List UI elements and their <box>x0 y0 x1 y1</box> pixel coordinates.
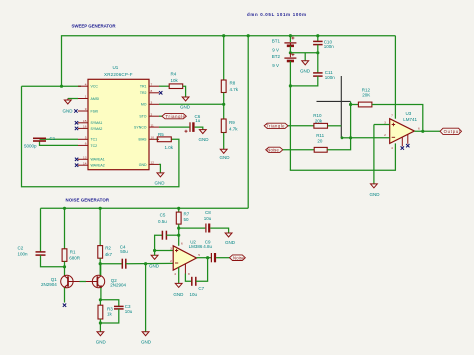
wire: U2 gain pin to C7 <box>185 264 191 281</box>
wire: SYNCO to C6 <box>159 126 189 128</box>
sheet note: simulation directive text <box>247 12 306 17</box>
no-connect X on U3 pin 5 <box>406 144 409 147</box>
ground at U2 pin 4 <box>173 283 184 296</box>
svg-text:R10: R10 <box>313 113 322 118</box>
wire: Noise label to R11 <box>283 149 314 151</box>
ground at C8 <box>225 233 236 245</box>
svg-text:R1: R1 <box>70 249 76 254</box>
wire: U2 pin 4 to ground <box>178 267 180 283</box>
svg-text:VCC: VCC <box>91 85 99 89</box>
svg-text:TC1: TC1 <box>91 138 98 142</box>
node: junction rail at R2 <box>99 207 102 210</box>
svg-text:GND: GND <box>96 339 107 344</box>
svg-text:6: 6 <box>418 126 420 130</box>
svg-text:4.7k: 4.7k <box>229 127 238 132</box>
node: junction summing at inverting input <box>349 136 352 139</box>
resistor R10 20k <box>313 113 327 128</box>
svg-text:9 V: 9 V <box>272 63 279 68</box>
svg-text:7: 7 <box>391 113 393 117</box>
wire: U2 output to C9 <box>197 257 211 259</box>
resistor R8 4.7k <box>221 80 238 93</box>
node: junction R3 C3 bottom <box>99 321 102 324</box>
wire: C5 right to R7 column <box>166 234 178 236</box>
wire: top VCC rail <box>62 36 396 86</box>
wire: noise generator top rail <box>41 207 249 209</box>
no-connect X on U1 TR2 <box>159 91 162 94</box>
svg-text:14: 14 <box>83 161 87 165</box>
svg-text:WAVEA1: WAVEA1 <box>91 158 105 162</box>
svg-text:13: 13 <box>83 156 87 160</box>
U1 right pin stubs <box>149 86 159 164</box>
svg-text:1u: 1u <box>195 118 201 123</box>
svg-text:50: 50 <box>184 217 190 222</box>
global label Triangle at R10 <box>264 123 288 128</box>
wire: R8 to R9 <box>223 93 225 120</box>
svg-text:2: 2 <box>170 259 172 263</box>
svg-text:SYNCO: SYNCO <box>134 126 147 130</box>
svg-text:10k: 10k <box>171 78 179 83</box>
node: junction R7 C8 <box>177 227 180 230</box>
svg-text:20k: 20k <box>315 119 323 124</box>
wire: TC2 to C1 bottom <box>40 141 79 145</box>
svg-text:FSKI: FSKI <box>91 109 99 113</box>
wire: R7 top stub <box>178 208 180 212</box>
ground at R9 <box>220 149 231 160</box>
capacitor C10 100n <box>313 40 334 50</box>
ground at R4 <box>180 97 191 110</box>
IC U1 XR2206CP-F <box>88 65 149 170</box>
svg-text:GND: GND <box>220 155 231 160</box>
svg-text:R7: R7 <box>184 212 190 217</box>
wire: C6 to ground <box>195 127 203 130</box>
svg-text:GND: GND <box>139 163 147 167</box>
svg-text:10u: 10u <box>190 292 198 297</box>
wire: rail to BT1 <box>289 36 291 42</box>
capacitor C9 4.8u polarized <box>203 239 215 262</box>
capacitor C6 1u polarized <box>185 114 201 133</box>
wire: R12 left stub <box>351 104 359 106</box>
wire: R2 top stub <box>99 208 101 245</box>
wire: TC1 to C1 top <box>40 138 79 140</box>
wire: U3 output <box>414 130 440 132</box>
ground at U2 pin 3 <box>149 251 160 269</box>
node: junction rail at R1 <box>63 207 66 210</box>
svg-text:AMSI: AMSI <box>91 97 100 101</box>
svg-text:8: 8 <box>151 89 153 93</box>
wire: R9 to ground <box>223 133 225 150</box>
transistor Q1 2N2904 <box>41 275 80 288</box>
svg-text:BIAS: BIAS <box>139 138 148 142</box>
sheet note: NOISE GENERATOR title <box>66 198 110 203</box>
wire: R12 right to output node <box>372 105 423 132</box>
wire: C9 to Noise output label <box>216 257 229 259</box>
svg-text:3: 3 <box>384 120 386 124</box>
svg-text:STO: STO <box>139 115 146 119</box>
wire: U3 pin 3 input <box>374 124 390 126</box>
svg-text:4.8u: 4.8u <box>203 244 212 249</box>
wire: C5 left column to pin 3 node <box>155 235 162 250</box>
node: junction mid row C10 <box>316 51 319 54</box>
svg-text:100n: 100n <box>324 44 335 49</box>
svg-text:6: 6 <box>181 241 183 245</box>
svg-text:GND: GND <box>173 292 184 297</box>
wire: U3 pin 4 down to V- row <box>290 143 396 170</box>
svg-text:100n: 100n <box>325 75 336 80</box>
svg-text:1.0k: 1.0k <box>165 145 174 150</box>
svg-text:R2: R2 <box>105 246 111 251</box>
svg-text:Triangle: Triangle <box>166 114 186 119</box>
svg-text:SYMA2: SYMA2 <box>91 127 103 131</box>
wire: C10 top stub <box>317 36 319 41</box>
svg-text:11: 11 <box>151 123 154 127</box>
svg-text:R5: R5 <box>158 132 164 137</box>
no-connect X on U1 SYMA2 <box>75 127 78 130</box>
wire: mid row down to C11 <box>317 53 319 73</box>
svg-text:C2: C2 <box>18 246 24 251</box>
node: junction C2 R1 Q1 <box>63 265 66 268</box>
svg-text:4: 4 <box>391 146 393 150</box>
svg-text:10u: 10u <box>204 216 212 221</box>
capacitor C3 10u <box>114 304 133 314</box>
no-connect X on U3 pin 1 <box>401 146 404 149</box>
svg-text:9: 9 <box>85 107 87 111</box>
svg-text:20: 20 <box>317 139 323 144</box>
global label Output <box>440 128 462 134</box>
svg-text:4k7: 4k7 <box>105 252 113 257</box>
svg-text:5000p: 5000p <box>24 144 37 149</box>
U1 left pin stubs <box>78 86 88 165</box>
node: junction U2 output C7 <box>206 256 209 259</box>
svg-text:2: 2 <box>384 133 386 137</box>
svg-text:XR2206CP-F: XR2206CP-F <box>104 72 133 77</box>
wire: BIAS pin to R5 <box>156 138 157 140</box>
wire: R4 to ground <box>183 86 186 97</box>
svg-text:MO: MO <box>141 103 147 107</box>
svg-text:4: 4 <box>85 82 87 86</box>
global label Noise output <box>230 255 246 261</box>
node: junction pin 3 ground <box>153 249 156 252</box>
svg-text:GND: GND <box>155 180 166 185</box>
resistor R4 10k <box>169 71 183 88</box>
capacitor C4 50u <box>120 244 129 268</box>
graphic line: black vertical near R12 <box>340 76 342 138</box>
ground at C4 column <box>141 332 152 345</box>
wire: R1 top stub <box>64 208 66 249</box>
node: junction Q2 emitter R3 C3 <box>99 298 102 301</box>
wire: VCC row to U1 pin 4 <box>22 85 82 87</box>
resistor R1 680R <box>62 249 81 262</box>
wire: Q1 base to Q2 base <box>80 281 87 283</box>
svg-text:dmn 0.05L 101m 100m: dmn 0.05L 101m 100m <box>247 12 306 17</box>
wire: R2 bottom to Q2 collector node <box>99 258 101 275</box>
wire: STO pin to Triangle label <box>159 115 162 117</box>
node: junction black line bottom <box>341 136 344 139</box>
wire: R1 bottom to Q1 collector <box>64 261 66 275</box>
svg-text:GND: GND <box>141 339 152 344</box>
wire: U1 GND pin to ground <box>159 164 160 173</box>
battery BT2 9V <box>272 53 297 68</box>
svg-text:R11: R11 <box>316 133 324 138</box>
resistor R7 50 <box>176 212 189 225</box>
wire: U3 pin 2 input <box>351 137 390 139</box>
ground at battery midpoint <box>300 61 311 74</box>
svg-text:GND: GND <box>63 109 74 114</box>
node: junction VCC rail drop <box>60 85 63 88</box>
ground at U1 AMSI <box>64 99 71 105</box>
wire: black line bottom to summing vertical <box>341 137 350 139</box>
ground at U3 pin 3 <box>370 184 381 197</box>
svg-text:C1: C1 <box>50 136 56 141</box>
svg-text:20K: 20K <box>362 93 370 98</box>
node: junction rail at R8 <box>222 34 225 37</box>
svg-text:BT1: BT1 <box>272 38 281 43</box>
svg-text:GND: GND <box>180 105 191 110</box>
svg-text:5: 5 <box>85 136 87 140</box>
wire: Triangle label to R10 <box>288 125 314 127</box>
svg-text:LM741: LM741 <box>403 117 417 122</box>
wire: rail left drop to C2 <box>40 208 42 251</box>
svg-text:3: 3 <box>151 101 153 105</box>
wire: mid vertical from top rail to noise rail <box>247 36 249 209</box>
no-connect X on U1 FSKI with GND label <box>63 109 78 114</box>
svg-text:SWEEP GENERATOR: SWEEP GENERATOR <box>72 24 117 29</box>
wire: C4 to U2 inverting input <box>126 262 173 264</box>
capacitor C2 100n <box>18 246 46 257</box>
capacitor C8 10u polarized <box>204 210 212 233</box>
node: junction summing at R12 stub <box>349 103 352 106</box>
svg-text:2: 2 <box>151 112 153 116</box>
node: junction rail at BT1 <box>289 34 292 37</box>
resistor R11 20 <box>314 133 327 152</box>
svg-text:GND: GND <box>199 137 210 142</box>
svg-text:R8: R8 <box>230 81 236 86</box>
capacitor C11 100n <box>313 70 335 80</box>
resistor R9 4.7k <box>221 119 238 133</box>
wire: MO pin to R8 R9 divider <box>159 103 224 105</box>
svg-text:1k: 1k <box>107 311 113 316</box>
node: junction MO divider <box>222 103 225 106</box>
ground at U1 GND pin <box>155 173 166 185</box>
svg-text:U3: U3 <box>406 111 412 116</box>
wire: TR1 to R4 <box>159 85 169 87</box>
node: junction rail at C10 <box>316 34 319 37</box>
wire: mid row ground stub <box>304 53 306 61</box>
wire: U2 pin 3 row <box>155 250 174 252</box>
wire: battery minus column down to op-amp V- row <box>289 61 291 170</box>
wire: AMSI pin to ground stub <box>68 98 78 100</box>
resistor R3 1k <box>98 305 113 319</box>
ground at R3 <box>96 332 107 345</box>
op-amp U2 LM386 <box>170 239 203 276</box>
svg-text:Output: Output <box>444 129 461 134</box>
wire: R8 top to rail <box>223 36 225 80</box>
no-connect X at Q1 emitter <box>63 304 66 307</box>
svg-text:10u: 10u <box>125 309 133 314</box>
node: junction C4 output to ground column <box>144 262 147 265</box>
svg-text:WAVEA2: WAVEA2 <box>91 164 105 168</box>
svg-text:R12: R12 <box>362 87 371 92</box>
node: junction output feedback <box>421 130 424 133</box>
node: junction battery column bottom <box>289 84 292 87</box>
svg-text:5: 5 <box>198 253 200 257</box>
wire: emitter node to R3 <box>99 300 101 305</box>
svg-text:Noise: Noise <box>267 148 279 153</box>
wire: C11 bottom row to battery column <box>290 76 317 86</box>
svg-text:2N2904: 2N2904 <box>110 282 126 287</box>
svg-text:Noise: Noise <box>233 256 245 261</box>
ground at C6 <box>199 130 210 142</box>
graphic line: black horizontal above R10 <box>317 100 351 102</box>
svg-text:0.5u: 0.5u <box>158 219 167 224</box>
no-connect X on U1 SYMA1 <box>75 121 78 124</box>
wire: R7 bottom to U2 V+ <box>178 224 180 246</box>
transistor Q2 2N2904 <box>86 275 126 288</box>
wire: C3 top branch <box>100 300 118 306</box>
node: junction rail at R7 <box>177 207 180 210</box>
U1 pin numbers <box>83 82 154 165</box>
wire: BT1 minus to mid row <box>289 46 291 53</box>
svg-text:GND: GND <box>225 240 236 245</box>
wire: ground column from C4 row <box>145 264 147 332</box>
wire: C8 row <box>179 227 206 229</box>
svg-text:GND: GND <box>149 264 160 269</box>
svg-text:4.7k: 4.7k <box>230 87 239 92</box>
wire: R10 to summing line <box>328 125 342 127</box>
svg-text:GND: GND <box>300 69 311 74</box>
svg-text:1: 1 <box>85 95 87 99</box>
svg-text:TR2: TR2 <box>140 91 147 95</box>
svg-text:100n: 100n <box>18 251 29 256</box>
resistor R12 20K <box>358 87 372 107</box>
wire: C3 bottom branch <box>100 309 118 323</box>
svg-text:6: 6 <box>85 142 87 146</box>
svg-text:7: 7 <box>151 82 153 86</box>
svg-text:TR1: TR1 <box>140 85 147 89</box>
svg-text:4: 4 <box>174 272 176 276</box>
svg-text:C7: C7 <box>198 286 204 291</box>
node: junction top rail mid vertical <box>247 34 250 37</box>
svg-text:R9: R9 <box>229 120 235 125</box>
wire: collector node to C4 <box>100 263 121 265</box>
wire: C10 bottom to mid row <box>317 45 319 53</box>
svg-text:C5: C5 <box>160 213 166 218</box>
capacitor C5 0.5u <box>158 213 167 240</box>
op-amp U3 LM741 <box>384 111 420 150</box>
svg-text:U1: U1 <box>113 65 119 70</box>
capacitor C7 10u <box>190 277 205 297</box>
svg-text:680R: 680R <box>69 256 81 261</box>
sheet note: SWEEP GENERATOR title <box>72 24 117 29</box>
svg-text:NOISE GENERATOR: NOISE GENERATOR <box>66 198 110 203</box>
svg-text:LM386: LM386 <box>189 244 203 249</box>
wire: U3 pin 7 supply from rail <box>394 36 396 119</box>
U1 pin names <box>91 85 148 168</box>
wire: C8 to ground <box>210 228 228 233</box>
no-connect X on U1 WAVEA1 <box>75 158 78 161</box>
svg-text:R4: R4 <box>171 71 177 76</box>
resistor R5 1.0k <box>157 132 173 150</box>
resistor R2 4k7 <box>98 246 113 259</box>
svg-text:9 V: 9 V <box>272 47 279 52</box>
capacitor C1 5000p <box>24 136 56 149</box>
svg-text:GND: GND <box>370 192 381 197</box>
svg-text:TC2: TC2 <box>91 144 98 148</box>
wire: C2 bottom to base node <box>41 255 65 267</box>
wire: left supply loop down and bottom run to R5 <box>22 86 179 187</box>
svg-text:BT2: BT2 <box>272 54 281 59</box>
svg-text:50u: 50u <box>120 249 128 254</box>
svg-text:3: 3 <box>170 246 172 250</box>
node: junction R7 C5 <box>177 234 180 237</box>
wire: Q2 collector up jog <box>100 264 102 276</box>
global label Noise at R11 <box>266 147 283 152</box>
wire: R11 to summing vertical <box>327 102 350 150</box>
wire: battery mid row <box>290 52 317 54</box>
wire: C7 to output node <box>196 258 208 282</box>
wire: Q1 emitter open stub <box>64 288 66 303</box>
svg-text:Triangle: Triangle <box>266 124 285 129</box>
wire: R3 bottom to ground <box>99 319 101 332</box>
svg-text:SYMA1: SYMA1 <box>91 121 103 125</box>
svg-text:12: 12 <box>151 161 155 165</box>
global label Triangle at STO <box>162 114 186 119</box>
wire: U3 pin 3 to ground <box>373 125 375 184</box>
wire: Q2 emitter down <box>100 288 102 300</box>
svg-text:2N2904: 2N2904 <box>41 282 57 287</box>
svg-text:16: 16 <box>83 125 87 129</box>
node: junction mid row BT <box>289 51 292 54</box>
node: junction R2 C4 Q2 <box>99 262 102 265</box>
battery BT1 9V <box>272 37 297 53</box>
svg-text:10: 10 <box>151 136 155 140</box>
svg-text:C8: C8 <box>205 210 211 215</box>
svg-text:8: 8 <box>188 272 190 276</box>
no-connect X on U1 WAVEA2 <box>75 164 78 167</box>
svg-text:15: 15 <box>83 119 87 123</box>
